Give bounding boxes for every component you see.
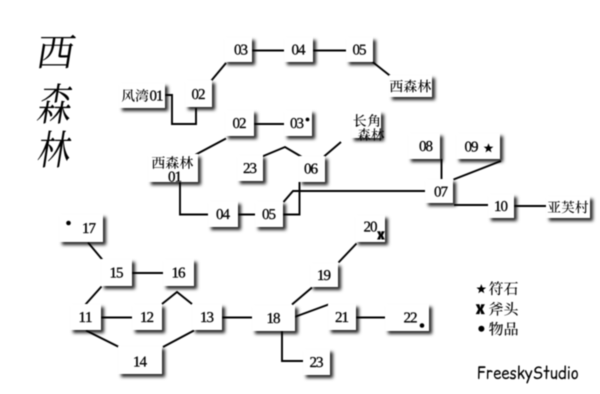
box 18: [252, 305, 295, 331]
wire 13-18: [222, 317, 252, 319]
label Changjiao: [351, 111, 381, 138]
box 12: [132, 304, 162, 330]
text 01 fengwan: [150, 91, 163, 101]
box 16: [163, 259, 194, 286]
wire 15-16: [132, 272, 163, 274]
box 03 dot: [284, 110, 312, 136]
marker star box09: [484, 143, 494, 152]
box 08: [408, 133, 440, 159]
wire 02-03 diag: [211, 63, 226, 81]
wire 05-06 L: [283, 182, 300, 215]
box 17 dot: [59, 214, 103, 242]
wire 07-09 diag: [454, 161, 502, 180]
box 10: [488, 194, 514, 218]
wire 04-05 mid: [238, 214, 256, 216]
marker dot box17: [66, 221, 71, 226]
text legend wupin: [489, 322, 518, 336]
box 03 (top row): [224, 37, 252, 62]
text Xisenlin01 line1: [152, 156, 193, 169]
box 15: [101, 259, 132, 286]
wire 05-xisenlin: [372, 62, 391, 77]
box 20 axe: [355, 215, 385, 242]
wire 02-03 row2: [254, 123, 285, 125]
marker star legend: [476, 284, 486, 293]
text Yafucun: [548, 201, 588, 214]
label Yafucun: [546, 196, 590, 218]
text Senlin line2: [358, 128, 384, 140]
box 05 (top row): [346, 37, 373, 62]
wire xisenlin01-02: [194, 139, 226, 156]
wire 18-19 diag: [292, 288, 312, 305]
box 04 (top row): [284, 37, 313, 62]
box 22 dot: [385, 304, 429, 331]
box 13: [192, 304, 222, 330]
wire 10-yafucun: [514, 205, 546, 207]
box 19: [310, 263, 338, 287]
wire 18-23 bottom: [282, 331, 303, 361]
wire 05-07 long: [284, 191, 427, 202]
text 01 xisenlin: [169, 172, 182, 182]
wire 03-04: [252, 50, 285, 52]
box 14: [118, 346, 162, 374]
wire 13-14 diag: [163, 331, 194, 348]
box 23 (bottom): [303, 349, 330, 375]
box 06: [299, 156, 325, 182]
wire 11-14 diag: [86, 331, 119, 348]
box 02 (row1): [185, 80, 212, 107]
wire 11-12: [101, 317, 132, 319]
wire 23-06 peak: [261, 147, 302, 157]
box 02 (row2): [225, 110, 254, 136]
label Xisenlin01: [148, 154, 198, 182]
wire 04-05: [313, 50, 347, 52]
text FreeskyStudio: [478, 365, 578, 383]
text Changjiao line1: [353, 114, 379, 127]
wire 21-22: [356, 317, 385, 319]
box 05 (mid): [255, 201, 283, 227]
box 04 (mid): [208, 201, 238, 227]
marker dot legend: [478, 326, 484, 332]
wire 08-07: [441, 159, 443, 180]
wire 18-21 diag: [295, 305, 329, 318]
marker axe legend: [476, 304, 485, 314]
marker dot box03: [306, 118, 310, 122]
wire 07-10: [454, 204, 488, 206]
label Fengwan01: [119, 83, 165, 108]
wire 15-11 diag: [85, 287, 102, 306]
title char 西: [39, 35, 76, 69]
wire 17-15 diag: [88, 243, 104, 262]
box 21: [328, 304, 356, 330]
wire fengwan-02: [164, 95, 196, 124]
wire 06-changjiao: [324, 142, 341, 157]
title char 林: [38, 131, 72, 168]
label Xisenlin top: [389, 75, 432, 97]
box 09 star: [456, 133, 500, 159]
box 23 (mid): [237, 155, 263, 181]
wire xisenlin01-04: [180, 182, 208, 215]
title char 森: [37, 83, 72, 123]
text legend fushi: [489, 281, 518, 295]
marker axe box20: [377, 231, 385, 239]
box 07: [425, 179, 453, 203]
wire 12-13 peak: [162, 292, 192, 304]
marker dot box22: [420, 323, 425, 328]
wire 19-20 diag: [339, 244, 357, 263]
box 11: [70, 304, 101, 330]
text Xisenlin top: [390, 80, 431, 93]
text Fengwan: [122, 89, 149, 102]
text legend futou: [489, 302, 518, 316]
